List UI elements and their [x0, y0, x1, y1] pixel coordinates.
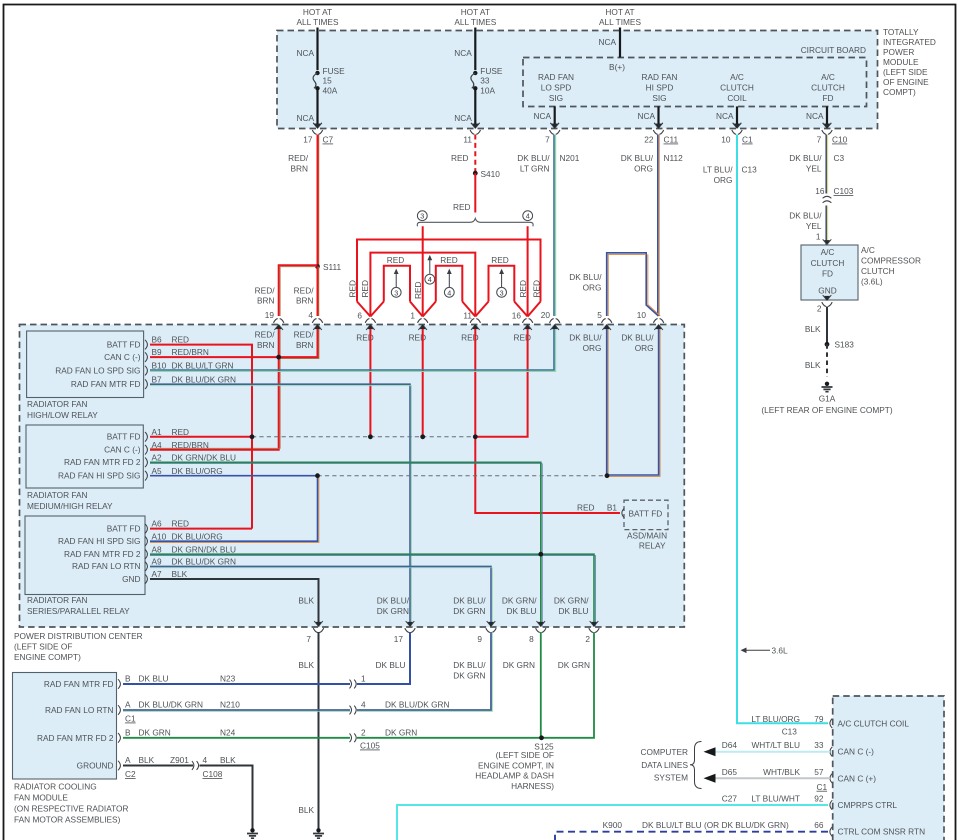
svg-text:BRN: BRN: [296, 340, 314, 350]
svg-text:COIL: COIL: [727, 93, 747, 103]
wire NCA fuse 15 to pin 17: [316, 88, 318, 127]
svg-text:ALL TIMES: ALL TIMES: [297, 17, 339, 27]
svg-text:CLUTCH: CLUTCH: [811, 83, 845, 93]
svg-text:RAD FAN MTR FD 2: RAD FAN MTR FD 2: [37, 733, 114, 743]
svg-text:B9: B9: [152, 347, 163, 357]
svg-text:INTEGRATED: INTEGRATED: [883, 37, 936, 47]
svg-text:C103: C103: [834, 186, 854, 196]
svg-text:11: 11: [463, 135, 472, 145]
wire NCA fuse 33 to pin 11: [474, 88, 476, 127]
wire DK BLU/YEL from C103 to A/C clutch pin 1: [825, 206, 827, 245]
terminal 2 below A/C clutch box: [822, 295, 832, 306]
svg-text:SIG: SIG: [549, 93, 563, 103]
svg-text:A1: A1: [152, 427, 163, 437]
wire DK GRN module pin B to connector: [123, 737, 350, 739]
svg-text:RED: RED: [347, 280, 357, 298]
svg-text:NCA: NCA: [296, 113, 314, 123]
svg-text:RAD FAN HI SPD SIG: RAD FAN HI SPD SIG: [58, 536, 141, 546]
svg-text:ENGINE COMPT, IN: ENGINE COMPT, IN: [478, 760, 554, 770]
svg-text:RED: RED: [360, 280, 370, 298]
wire DK GRN terminal 8 to S125: [540, 632, 542, 738]
wire RED loop C between terminals 11 and 16: [489, 266, 515, 302]
option arrow 3 in loop A: [395, 273, 397, 288]
wire RED S410 down to option brace: [474, 173, 476, 212]
svg-text:RED/BRN: RED/BRN: [172, 440, 209, 450]
radiator fan medium/high relay box: [26, 425, 143, 488]
svg-text:ORG: ORG: [634, 164, 653, 174]
svg-text:NCA: NCA: [454, 48, 472, 58]
svg-text:N23: N23: [220, 674, 236, 684]
svg-text:NCA: NCA: [296, 48, 314, 58]
svg-text:DATA LINES: DATA LINES: [641, 760, 688, 770]
svg-text:15: 15: [323, 76, 333, 86]
Power Distribution Center box: [20, 325, 685, 628]
svg-text:RED/BRN: RED/BRN: [172, 347, 209, 357]
svg-text:DK BLU/: DK BLU/: [377, 596, 410, 606]
wire DK BLU/LT BLU dashed ctrl com snsr rtn (K900): [555, 832, 828, 840]
svg-text:B10: B10: [152, 361, 167, 371]
svg-text:C105: C105: [360, 741, 380, 751]
svg-text:FD: FD: [822, 93, 833, 103]
svg-text:79: 79: [814, 714, 824, 724]
PCM pin 66 CTRL COM SNSR RTN: [830, 827, 832, 837]
svg-text:D64: D64: [722, 740, 738, 750]
PCM pin 33 CAN C (-): [830, 747, 832, 757]
PCM pin 92 CMPRPS CTRL: [830, 800, 832, 810]
svg-text:BLK: BLK: [220, 755, 236, 765]
svg-text:2: 2: [585, 634, 590, 644]
pin A5: [145, 471, 147, 481]
svg-text:FUSE: FUSE: [323, 66, 346, 76]
svg-text:RAD FAN: RAD FAN: [538, 72, 574, 82]
svg-text:RADIATOR COOLING: RADIATOR COOLING: [14, 782, 97, 792]
svg-text:POWER: POWER: [883, 47, 914, 57]
wire RED/BRN terminal 19 continuation to pin A4: [150, 329, 279, 450]
svg-text:YEL: YEL: [806, 164, 822, 174]
pin A9: [145, 562, 147, 572]
wire RED diagonals into terminal 16: [514, 302, 540, 317]
svg-text:C3: C3: [834, 153, 845, 163]
svg-text:RED: RED: [532, 280, 542, 298]
svg-text:FUSE: FUSE: [480, 66, 503, 76]
svg-text:B(+): B(+): [609, 62, 625, 72]
svg-text:ENGINE COMPT): ENGINE COMPT): [14, 652, 81, 662]
svg-text:ORG: ORG: [635, 343, 654, 353]
svg-text:A2: A2: [152, 452, 163, 462]
svg-text:3: 3: [500, 288, 504, 297]
wire RED terminal 1 continuation to A1 bus: [422, 329, 424, 437]
wire RED/BRN terminal 4 continuation to pin B9 junction: [279, 329, 318, 357]
pin B6: [145, 340, 147, 350]
svg-text:CAN C (-): CAN C (-): [838, 747, 875, 757]
svg-text:A: A: [125, 700, 131, 710]
wire WHT/BLK can c(+): [712, 777, 830, 779]
svg-text:S183: S183: [835, 340, 855, 350]
svg-text:66: 66: [814, 820, 824, 830]
svg-text:BLK: BLK: [298, 596, 314, 606]
svg-text:DK BLU/DK GRN: DK BLU/DK GRN: [385, 700, 450, 710]
svg-text:B6: B6: [152, 335, 163, 345]
svg-text:ALL TIMES: ALL TIMES: [454, 17, 496, 27]
ASD/MAIN relay BATT FD box: [624, 500, 668, 529]
pin A7: [145, 574, 147, 584]
svg-text:CAN C (-): CAN C (-): [104, 445, 141, 455]
svg-text:DK GRN/DK BLU: DK GRN/DK BLU: [172, 452, 237, 462]
svg-text:BLK: BLK: [298, 805, 314, 815]
svg-text:MODULE: MODULE: [883, 57, 919, 67]
wire RED/BRN pin B9 to junction: [150, 356, 279, 358]
svg-text:NCA: NCA: [533, 111, 551, 121]
wire NCA rad fan lo spd sig out: [554, 106, 556, 127]
wire RED/BRN branch S111 to terminal 19: [279, 265, 318, 316]
in-line connector 4 / C108: [192, 761, 199, 770]
svg-text:(ON RESPECTIVE RADIATOR: (ON RESPECTIVE RADIATOR: [14, 804, 128, 814]
in-line connector pin 1: [350, 680, 357, 689]
svg-text:7: 7: [306, 634, 311, 644]
svg-text:CMPRPS CTRL: CMPRPS CTRL: [838, 800, 898, 810]
wire RED/BRN from C7 pin 17 to S111 (red with brown stripe): [318, 135, 320, 267]
svg-text:NCA: NCA: [806, 111, 824, 121]
wire RED diagonals into terminal 6: [357, 302, 384, 317]
svg-text:DK BLU/: DK BLU/: [569, 333, 602, 343]
svg-text:HI SPD: HI SPD: [646, 83, 674, 93]
svg-text:RED/: RED/: [255, 330, 276, 340]
terminal 5 at PDC top edge: [602, 319, 612, 330]
wire BLK a/c clutch to S183: [826, 307, 828, 345]
wire NCA feed to fuse 15: [316, 28, 318, 71]
svg-text:RAD FAN MTR FD 2: RAD FAN MTR FD 2: [64, 549, 141, 559]
svg-text:20: 20: [541, 310, 551, 320]
terminal 8 at PDC bottom edge: [536, 621, 546, 632]
svg-text:RED: RED: [172, 519, 190, 529]
svg-text:A7: A7: [152, 569, 163, 579]
wire DK BLU terminal 17 to connector C105 pin 1: [357, 632, 410, 684]
svg-text:C2: C2: [125, 769, 136, 779]
svg-text:A9: A9: [152, 557, 163, 567]
svg-text:RED/: RED/: [294, 286, 315, 296]
ground (fan module): [247, 828, 258, 838]
terminal 11 at PDC top edge: [470, 319, 480, 330]
wire DK BLU/ORG loop terminals 5 to 10: [607, 253, 659, 316]
svg-text:HIGH/LOW RELAY: HIGH/LOW RELAY: [27, 410, 98, 420]
svg-text:RED/: RED/: [294, 330, 315, 340]
svg-text:LT BLU/: LT BLU/: [703, 165, 733, 175]
svg-text:CAN C (-): CAN C (-): [104, 352, 141, 362]
svg-text:BLK: BLK: [172, 569, 188, 579]
wire DK BLU module pin B to connector: [123, 683, 350, 685]
svg-text:RADIATOR FAN: RADIATOR FAN: [27, 399, 88, 409]
wire BLK connector C108 to ground: [200, 766, 253, 830]
svg-text:RAD FAN HI SPD SIG: RAD FAN HI SPD SIG: [58, 471, 141, 481]
wire NCA a/c clutch coil out: [736, 106, 738, 127]
svg-text:92: 92: [814, 794, 824, 804]
svg-text:C27: C27: [722, 794, 738, 804]
svg-text:BLK: BLK: [805, 324, 821, 334]
svg-text:DK BLU/: DK BLU/: [517, 153, 550, 163]
terminal 7 / C10: [822, 123, 832, 134]
wire DK GRN/DK BLU pin A2 down to A8 junction: [150, 462, 541, 626]
pin B10: [145, 366, 147, 376]
PCM pin 57 CAN C (+): [830, 774, 832, 784]
wire RED diagonals into terminal 11: [462, 302, 488, 317]
svg-text:DK BLU/DK GRN: DK BLU/DK GRN: [172, 557, 237, 567]
svg-text:RAD FAN MTR FD 2: RAD FAN MTR FD 2: [64, 457, 141, 467]
option brace (engine variants): [417, 218, 533, 226]
svg-text:4: 4: [428, 275, 432, 284]
junction dots in PDC: [276, 355, 281, 360]
svg-text:RADIATOR FAN: RADIATOR FAN: [27, 595, 88, 605]
svg-text:3: 3: [394, 288, 398, 297]
svg-text:RELAY: RELAY: [639, 541, 666, 551]
circuit board inner box: [523, 58, 867, 107]
module pin B (rad fan mtr fd 2): [118, 733, 120, 743]
splice S111: [315, 264, 320, 269]
svg-text:C11: C11: [664, 135, 679, 145]
terminal 9 at PDC bottom edge: [486, 621, 496, 632]
wire RED dashed from pin 11 to S410: [474, 135, 476, 174]
svg-text:1: 1: [816, 232, 821, 242]
svg-text:DK GRN: DK GRN: [558, 660, 590, 670]
wire RED bus line 1 (to terminals 6 and 16): [357, 240, 541, 302]
svg-text:NCA: NCA: [598, 37, 616, 47]
splice S125: [539, 735, 544, 740]
svg-text:17: 17: [303, 135, 313, 145]
radiator fan high/low relay box: [27, 331, 144, 398]
terminal 1 at PDC top edge: [418, 319, 428, 330]
wire BLK dashed S183 to ground: [826, 344, 828, 377]
svg-text:BRN: BRN: [257, 296, 275, 306]
svg-text:DK BLU: DK BLU: [507, 606, 537, 616]
wire DK BLU/YEL from pin 7/C10 to connector C103: [825, 135, 827, 194]
option arrow 3 in loop C: [501, 273, 503, 288]
svg-text:RED: RED: [491, 255, 509, 265]
svg-text:C7: C7: [323, 135, 334, 145]
svg-text:BATT FD: BATT FD: [629, 509, 663, 519]
svg-text:4: 4: [447, 288, 451, 297]
svg-text:WHT/LT BLU: WHT/LT BLU: [751, 740, 800, 750]
svg-text:BLK: BLK: [805, 360, 821, 370]
svg-text:CLUTCH: CLUTCH: [720, 83, 754, 93]
svg-text:2: 2: [361, 727, 366, 737]
svg-text:NCA: NCA: [454, 113, 472, 123]
svg-text:FD: FD: [822, 269, 833, 279]
splice S183: [825, 342, 830, 347]
svg-text:A/C: A/C: [730, 72, 744, 82]
svg-text:A/C: A/C: [821, 72, 835, 82]
svg-text:HOT AT: HOT AT: [303, 7, 332, 17]
svg-text:RED/: RED/: [288, 153, 309, 163]
bottom right module box (PCM): [833, 696, 944, 840]
terminal 16 at PDC top edge: [522, 319, 532, 330]
svg-text:DK GRN: DK GRN: [503, 660, 535, 670]
svg-text:D65: D65: [722, 767, 738, 777]
svg-text:RED: RED: [440, 255, 458, 265]
svg-text:DK BLU/: DK BLU/: [789, 153, 822, 163]
svg-text:C1: C1: [817, 782, 828, 792]
svg-text:SIG: SIG: [652, 93, 666, 103]
svg-text:19: 19: [265, 310, 275, 320]
PCM pin 79 A/C CLUTCH COIL: [830, 719, 832, 729]
A/C compressor clutch box: [801, 245, 858, 300]
svg-text:A/C: A/C: [861, 245, 875, 255]
svg-text:DK BLU/ORG: DK BLU/ORG: [172, 466, 223, 476]
TIPM module box (Totally Integrated Power Module): [277, 31, 878, 129]
svg-text:RED: RED: [172, 335, 190, 345]
wire DK BLU/ORG from pin 22 down to terminal 10: [657, 135, 659, 317]
svg-text:NCA: NCA: [637, 111, 655, 121]
svg-text:DK GRN/DK BLU: DK GRN/DK BLU: [172, 544, 237, 554]
option circle 4 (right brace end): [523, 211, 533, 221]
wire DK BLU/ORG terminal 10 continuation, A5 junction to terminal 10: [607, 329, 659, 475]
wire RED terminal 11 continuation to B1 batt fd: [475, 329, 620, 513]
wire DK BLU/DK GRN terminal 9 to connector pin 4: [357, 632, 491, 710]
svg-text:DK BLU/: DK BLU/: [453, 660, 486, 670]
svg-text:BATT FD: BATT FD: [107, 339, 141, 349]
wire DK BLU/DK GRN pin B7 to terminal 17 drop: [150, 384, 410, 626]
svg-text:BATT FD: BATT FD: [107, 432, 141, 442]
svg-text:CLUTCH: CLUTCH: [811, 258, 845, 268]
svg-text:A6: A6: [152, 519, 163, 529]
wire BLK terminal 7 to ground: [318, 632, 320, 830]
ground (PDC terminal 7): [313, 828, 324, 838]
svg-text:CLUTCH: CLUTCH: [861, 266, 895, 276]
svg-text:DK BLU/: DK BLU/: [453, 596, 486, 606]
wire B(+) feed to circuit board: [619, 28, 621, 58]
terminal 22 / C11: [653, 123, 663, 134]
svg-text:10A: 10A: [480, 86, 495, 96]
svg-text:DK BLU/LT BLU (OR DK BLU/DK GR: DK BLU/LT BLU (OR DK BLU/DK GRN): [642, 820, 789, 830]
svg-text:33: 33: [480, 76, 490, 86]
svg-text:GROUND: GROUND: [77, 761, 114, 771]
svg-text:DK GRN/: DK GRN/: [502, 596, 537, 606]
svg-text:A: A: [125, 755, 131, 765]
svg-text:(LEFT SIDE: (LEFT SIDE: [883, 67, 928, 77]
svg-text:C108: C108: [203, 769, 223, 779]
svg-text:FAN MODULE: FAN MODULE: [14, 793, 68, 803]
svg-text:DK BLU/DK GRN: DK BLU/DK GRN: [172, 374, 237, 384]
svg-text:DK GRN: DK GRN: [385, 727, 417, 737]
wire NCA rad fan hi spd sig out: [657, 106, 659, 127]
svg-text:LO SPD: LO SPD: [541, 83, 571, 93]
wire RED pin B6 to bus, bus down to A6: [150, 345, 252, 529]
svg-text:9: 9: [477, 634, 482, 644]
svg-text:DK BLU/: DK BLU/: [621, 333, 654, 343]
svg-text:WHT/BLK: WHT/BLK: [763, 767, 800, 777]
pin B7: [145, 379, 147, 389]
wire RED brace option 3 drop to terminal 1: [422, 226, 424, 316]
internal dashed bus A5 row: [318, 475, 608, 477]
svg-text:16: 16: [512, 311, 522, 321]
wire WHT/LT BLU can c(-): [712, 751, 830, 753]
svg-text:DK BLU: DK BLU: [559, 606, 589, 616]
svg-text:RAD FAN MTR FD: RAD FAN MTR FD: [71, 379, 141, 389]
svg-text:DK BLU/ORG: DK BLU/ORG: [172, 531, 223, 541]
svg-text:5: 5: [597, 310, 602, 320]
svg-text:(3.6L): (3.6L): [861, 277, 883, 287]
terminal 17 / C7: [312, 123, 322, 134]
svg-text:C10: C10: [832, 135, 848, 145]
svg-text:RED: RED: [172, 427, 190, 437]
fuse F15 40A: [315, 71, 319, 75]
svg-text:2: 2: [817, 304, 822, 314]
svg-text:A8: A8: [152, 544, 163, 554]
svg-text:DK BLU/DK GRN: DK BLU/DK GRN: [139, 700, 204, 710]
svg-text:ALL TIMES: ALL TIMES: [599, 17, 641, 27]
svg-text:COMPT): COMPT): [883, 87, 916, 97]
svg-text:RED: RED: [577, 503, 595, 513]
svg-text:B: B: [125, 727, 131, 737]
svg-text:HOT AT: HOT AT: [461, 7, 490, 17]
svg-text:RED: RED: [518, 280, 528, 298]
wire DK BLU/LT GRN from pin 7 down into PDC terminal 20: [553, 135, 555, 317]
terminal 19 at PDC top edge: [274, 319, 284, 330]
svg-text:10: 10: [721, 135, 731, 145]
radiator cooling fan module box: [13, 673, 117, 780]
terminal 4 at PDC top edge: [312, 319, 322, 330]
terminal 17 at PDC bottom edge: [405, 621, 415, 632]
svg-text:COMPRESSOR: COMPRESSOR: [861, 256, 921, 266]
svg-text:1: 1: [410, 311, 415, 321]
svg-text:HOT AT: HOT AT: [605, 7, 634, 17]
in-line connector 16 / C103: [823, 196, 832, 203]
svg-text:RAD FAN LO RTN: RAD FAN LO RTN: [72, 561, 141, 571]
splice S410: [473, 171, 478, 176]
svg-text:GND: GND: [122, 574, 140, 584]
svg-text:3.6L: 3.6L: [772, 646, 789, 656]
svg-text:G1A: G1A: [819, 394, 836, 404]
terminal 10 at PDC top edge: [653, 319, 663, 330]
pin A8: [145, 549, 147, 559]
svg-text:DK GRN: DK GRN: [453, 671, 485, 681]
ground G1A: [822, 382, 833, 392]
svg-text:POWER DISTRIBUTION CENTER: POWER DISTRIBUTION CENTER: [14, 631, 143, 641]
svg-text:RAD FAN LO SPD SIG: RAD FAN LO SPD SIG: [55, 365, 140, 375]
terminal 7 at PDC bottom edge: [313, 621, 323, 632]
svg-text:SYSTEM: SYSTEM: [654, 773, 688, 783]
svg-text:TOTALLY: TOTALLY: [883, 27, 919, 37]
svg-text:S410: S410: [481, 169, 501, 179]
pin A10: [145, 536, 147, 546]
wire DK BLU/LT GRN terminal 20 continuation to pin B10: [150, 329, 554, 370]
svg-text:RED: RED: [387, 255, 405, 265]
svg-text:RADIATOR FAN: RADIATOR FAN: [27, 490, 88, 500]
wire DK GRN terminal 2 to row joining S125: [357, 632, 594, 738]
wire DK GRN/DK BLU pin A8 to junction, branch to terminal 2: [150, 553, 541, 555]
module pin A (rad fan lo rtn) / C1: [118, 705, 120, 715]
svg-text:OF ENGINE: OF ENGINE: [883, 77, 929, 87]
wire RED loop A between terminals 6 and 1: [384, 266, 410, 302]
svg-text:C13: C13: [782, 727, 798, 737]
svg-text:DK BLU/: DK BLU/: [569, 272, 602, 282]
svg-text:RED/: RED/: [255, 286, 276, 296]
svg-text:(LEFT SIDE OF: (LEFT SIDE OF: [14, 642, 72, 652]
option arrow 4 in loop B: [448, 273, 450, 288]
svg-text:BRN: BRN: [257, 340, 275, 350]
svg-text:11: 11: [463, 311, 472, 321]
option arrow 4 beside terminal 1 drop: [429, 259, 431, 274]
svg-text:17: 17: [394, 634, 404, 644]
svg-text:N210: N210: [220, 700, 240, 710]
svg-text:BATT FD: BATT FD: [107, 523, 141, 533]
svg-text:8: 8: [529, 634, 534, 644]
terminal 10 / C1: [732, 123, 742, 134]
terminal 7 (lo spd sig): [550, 123, 560, 134]
svg-text:7: 7: [817, 135, 822, 145]
wire DK BLU/DK GRN module pin A to connector: [123, 709, 350, 711]
svg-text:DK BLU/: DK BLU/: [621, 153, 654, 163]
svg-text:DK GRN: DK GRN: [139, 727, 171, 737]
svg-text:DK BLU: DK BLU: [376, 660, 406, 670]
